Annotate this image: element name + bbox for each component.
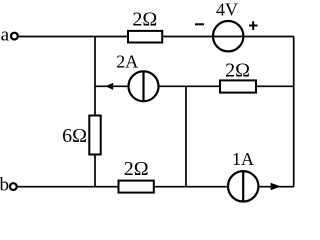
- wire right side: top-right corner to bottom-right corner: [293, 37, 295, 187]
- terminal b: [0, 175, 17, 196]
- voltage source 4V: [195, 0, 258, 51]
- arrow for 2A current direction (points left): [106, 83, 114, 90]
- resistor 6ohm: [62, 116, 101, 155]
- wire top: node a to top-right corner: [18, 36, 294, 38]
- svg-text:a: a: [1, 25, 10, 46]
- resistor 2ohm bottom: [119, 158, 154, 193]
- svg-text:2Ω: 2Ω: [124, 158, 149, 180]
- resistor 2ohm middle: [220, 59, 256, 92]
- svg-text:b: b: [0, 175, 9, 196]
- svg-text:2Ω: 2Ω: [132, 8, 157, 30]
- terminal a: [1, 25, 18, 46]
- wire 2A row: left branch to right side: [95, 85, 294, 87]
- svg-text:1A: 1A: [232, 149, 254, 169]
- current source 1A: [228, 149, 258, 202]
- wire left branch: top wire down through 6-ohm resistor to bottom wire: [94, 37, 96, 187]
- current source 2A: [116, 52, 158, 102]
- wire bottom: node b to bottom-right corner: [17, 186, 294, 188]
- arrow for 1A current direction (points right): [271, 183, 281, 190]
- wire middle branch: 2A row down to bottom wire: [185, 86, 187, 186]
- svg-text:2Ω: 2Ω: [225, 59, 250, 81]
- svg-text:6Ω: 6Ω: [62, 125, 87, 147]
- resistor 2ohm top: [128, 8, 162, 42]
- svg-text:4V: 4V: [216, 0, 238, 19]
- svg-text:2A: 2A: [116, 52, 138, 72]
